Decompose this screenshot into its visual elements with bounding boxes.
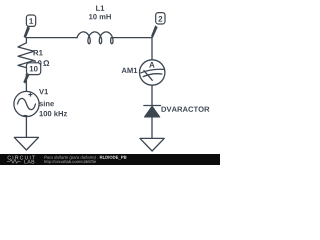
node 1 flag box [26,15,35,26]
label V1 [39,89,48,94]
wire node1 corner to R1 top [25,38,27,43]
node 10 label [30,66,38,72]
ammeter needle [144,71,152,81]
footer logo LAB [24,160,34,164]
node 2 flag tail [151,25,158,37]
V1 minus sign [23,115,27,117]
inductor L1 [77,32,113,44]
wire diode to ground right [151,117,153,138]
ammeter scale arc outer [141,69,164,73]
ground right [140,138,164,151]
wire V1 to ground left [25,117,27,138]
source V1 circle [14,91,39,116]
footer logo zigzag [7,160,21,164]
node 2 label [158,16,162,22]
ammeter scale arc inner [143,74,162,77]
label V1 freq [39,111,67,117]
footer bar [0,154,220,165]
footer url [44,160,96,164]
label V1 type [39,101,54,107]
ammeter letter A [149,62,155,68]
label R1 value unit [43,60,49,66]
node 2 flag box [156,13,165,24]
footer logo CIRCUIT [8,156,36,160]
wire node2 corner to ammeter [151,38,153,60]
node 10 flag box [27,63,41,75]
label R1 value hidden 10 [33,60,41,66]
V1 plus sign [28,93,32,97]
resistor R1 [18,43,34,74]
label R1 [34,50,43,55]
footer circuit name [100,156,127,159]
footer title text [44,156,98,160]
label DVARACTOR [162,106,210,111]
node 10 flag tail [23,75,29,84]
ammeter AM1 circle [140,60,165,85]
node 1 label [29,18,33,24]
ground left [14,137,38,150]
label AM1 [122,68,138,73]
wire ammeter to diode [151,85,153,105]
node 1 flag tail [24,26,30,38]
label L1 [96,5,104,10]
diode D1 triangle (varactor) [144,106,159,117]
V1 sine squiggle [18,98,36,109]
diode D1 cathode bar [144,105,161,107]
wire top-left horizontal [26,37,77,39]
label L1 value [89,14,111,19]
wire top-right horizontal [111,37,152,39]
wire R1 to V1 [25,74,27,91]
